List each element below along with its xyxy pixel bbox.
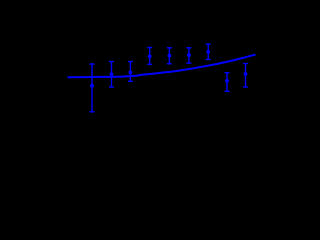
data point 1 error bar (90, 64, 95, 112)
data point 6 error bar (186, 48, 191, 63)
data point 2 error bar (109, 62, 114, 88)
data point 4 error bar (147, 48, 152, 65)
data point 8 error bar (225, 73, 230, 92)
data point 5 error bar (167, 48, 172, 64)
fit curve (68, 55, 256, 78)
data point 3 error bar (128, 62, 133, 82)
data point 7 error bar (206, 44, 211, 59)
data point 9 error bar (243, 64, 248, 88)
